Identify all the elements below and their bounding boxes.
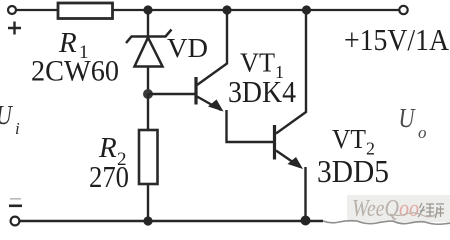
junction dot: VT1 collector <box>222 5 231 14</box>
wire: node to VT1 base <box>148 93 195 95</box>
svg-text:3DD5: 3DD5 <box>317 153 389 189</box>
svg-text:i: i <box>15 119 20 138</box>
watermark WeeQoo维库 <box>347 195 450 222</box>
wire: R2 to bottom rail <box>147 184 149 221</box>
resistor R1 <box>58 3 113 19</box>
junction dot: R2 bottom <box>143 216 152 225</box>
transistor VT1 <box>196 10 227 112</box>
wire: bottom rail faint through watermark <box>323 221 450 225</box>
wire: zener anode to node <box>147 67 149 95</box>
wire: VT2 emitter to bottom rail <box>304 167 306 221</box>
terminal: +15V output (top-right) <box>399 6 407 14</box>
resistor R2 <box>139 130 158 184</box>
svg-text:VD: VD <box>167 33 208 63</box>
wire: top rail <box>113 9 399 11</box>
terminal: - input (bottom-left) <box>11 217 20 226</box>
svg-text:WeeQ: WeeQ <box>352 196 399 222</box>
junction dot: VT2 collector <box>302 5 311 14</box>
svg-text:VT: VT <box>240 48 275 78</box>
svg-text:2CW60: 2CW60 <box>31 55 119 88</box>
svg-text:U: U <box>0 101 14 131</box>
junction dot: zener top <box>143 5 152 14</box>
label: - polarity <box>9 205 22 208</box>
wire: VT1 emitter to VT2 base <box>227 110 274 142</box>
wire: rail to zener cathode <box>147 10 149 37</box>
node: zener/R2/VT1-base junction <box>143 89 153 99</box>
terminal: + input (top-left) <box>8 6 16 14</box>
wire: node to R2 <box>147 94 149 130</box>
wire: input to R1 <box>16 9 57 11</box>
label: + polarity <box>8 22 21 35</box>
transistor VT2 <box>275 10 307 169</box>
svg-text:oo: oo <box>399 196 419 222</box>
svg-text:o: o <box>418 123 427 142</box>
svg-text:3DK4: 3DK4 <box>228 74 296 109</box>
svg-text:U: U <box>399 104 417 134</box>
svg-text:VT: VT <box>332 124 366 154</box>
wire: bottom rail <box>20 220 324 222</box>
svg-text:270: 270 <box>89 159 129 194</box>
zener diode VD <box>126 30 172 67</box>
svg-text:+15V/1A: +15V/1A <box>344 22 450 57</box>
junction dot: emitter/bottom rail <box>301 216 311 226</box>
